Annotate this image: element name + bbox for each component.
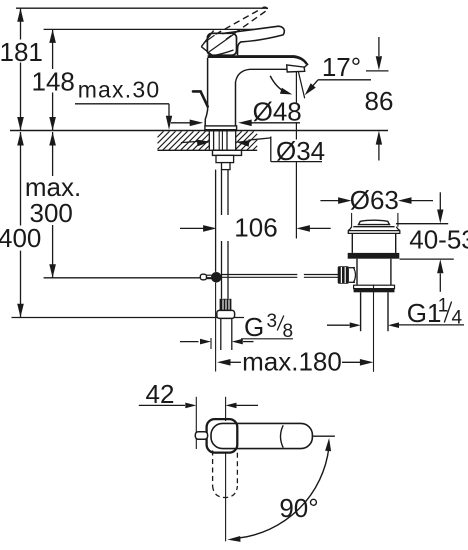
86 dimension bottom arrow bbox=[376, 131, 382, 161]
svg-text:3: 3 bbox=[267, 311, 278, 332]
svg-text:G1: G1 bbox=[407, 298, 442, 328]
handle pin bbox=[195, 432, 207, 440]
faucet body outline bbox=[205, 55, 308, 126]
O63 dimension left bbox=[320, 197, 351, 204]
deck hatching left bbox=[158, 131, 210, 150]
O48 dimension line right bbox=[238, 120, 300, 127]
O63 dimension right bbox=[398, 197, 433, 204]
max.180 dimension bbox=[217, 359, 373, 366]
40-53 top reference line bbox=[396, 223, 448, 225]
90deg reference line bbox=[313, 435, 335, 437]
dimension 148 vertical line bbox=[49, 29, 56, 130]
svg-text:106: 106 bbox=[234, 213, 277, 243]
17deg underline bbox=[318, 79, 371, 81]
svg-text:Ø48: Ø48 bbox=[253, 97, 302, 127]
dimension max.300 vertical line bbox=[49, 132, 56, 278]
reference line top (181 datum) bbox=[16, 7, 268, 9]
label 40-53 bbox=[409, 225, 468, 255]
86 top reference line bbox=[366, 70, 389, 72]
label max.180 bbox=[242, 347, 342, 377]
drain neck bbox=[352, 233, 395, 253]
drain flange bbox=[348, 227, 400, 234]
svg-text:181: 181 bbox=[0, 37, 43, 67]
lever handle solid bbox=[201, 26, 284, 56]
label O48 bbox=[253, 97, 302, 127]
svg-text:4: 4 bbox=[452, 308, 463, 329]
max.30 leader bbox=[75, 104, 172, 130]
svg-text:Ø63: Ø63 bbox=[350, 185, 399, 215]
handle top view blade bbox=[211, 423, 312, 448]
svg-text:max.30: max.30 bbox=[78, 77, 161, 103]
400 bottom reference line bbox=[12, 317, 245, 319]
dimension 181 vertical line bbox=[17, 8, 24, 130]
aerator bbox=[287, 65, 305, 72]
mounting nut bbox=[216, 155, 234, 169]
svg-text:Ø34: Ø34 bbox=[276, 136, 325, 166]
svg-text:max.180: max.180 bbox=[242, 347, 342, 377]
label 17deg bbox=[322, 52, 361, 82]
drain plug cap bbox=[359, 220, 390, 224]
deck hole right edge bbox=[235, 131, 237, 150]
label 181 bbox=[0, 37, 43, 67]
supply pipe bbox=[222, 170, 229, 299]
countertop deck top line bbox=[10, 130, 388, 132]
lever handle raised dashed bbox=[216, 7, 268, 39]
drain centerline bbox=[373, 285, 375, 372]
O63 extension lines bbox=[352, 213, 398, 227]
O34 right arrow bbox=[236, 138, 271, 147]
label 400 bbox=[0, 223, 41, 253]
106 dimension right bbox=[296, 225, 330, 232]
svg-text:17°: 17° bbox=[322, 52, 361, 82]
label max.30 bbox=[78, 77, 161, 103]
handle top view divider bbox=[281, 425, 284, 447]
water stream vertical reference bbox=[295, 72, 297, 239]
O48 dimension line left bbox=[171, 120, 203, 127]
svg-text:148: 148 bbox=[32, 66, 75, 96]
106 dimension left bbox=[180, 225, 217, 232]
max.300 bottom reference line bbox=[44, 277, 212, 279]
G3/8 connector block bbox=[220, 299, 232, 311]
svg-text:86: 86 bbox=[365, 86, 394, 116]
label 106 bbox=[234, 213, 277, 243]
svg-text:1: 1 bbox=[438, 296, 449, 317]
G3/8 tail pipe bbox=[221, 318, 232, 350]
G3/8 extension line bbox=[210, 338, 212, 349]
faucet shank bbox=[214, 131, 227, 150]
ball joint bbox=[211, 272, 222, 283]
deck hole left edge bbox=[208, 131, 210, 150]
lift rod extension below ball bbox=[215, 283, 217, 372]
90deg arc bbox=[227, 438, 331, 542]
drain side port bbox=[349, 268, 356, 283]
water stream angled line bbox=[299, 72, 305, 98]
svg-text:G: G bbox=[244, 312, 264, 342]
label 148 bbox=[32, 66, 75, 96]
mounting washer bbox=[213, 150, 242, 155]
label 42 bbox=[146, 379, 175, 409]
flow curved arrow bbox=[270, 76, 292, 95]
pop-up rod horizontal bbox=[222, 275, 338, 278]
O34 label bracket bbox=[271, 137, 322, 162]
faucet body hidden dashed bbox=[213, 451, 238, 498]
drain locknut bbox=[354, 285, 395, 292]
86 dimension top arrow bbox=[376, 37, 382, 70]
svg-text:90°: 90° bbox=[279, 493, 318, 523]
42 extension line left bbox=[195, 397, 197, 449]
reference line (148 datum) bbox=[44, 28, 278, 30]
handle top view base cap bbox=[207, 419, 238, 453]
dimension 400 vertical line bbox=[17, 132, 24, 317]
17deg leader arrow bbox=[305, 80, 318, 96]
O34 left arrow bbox=[181, 140, 211, 147]
svg-text:400: 400 bbox=[0, 223, 41, 253]
svg-text:40-53: 40-53 bbox=[409, 225, 468, 255]
deck bottom line bbox=[158, 149, 258, 151]
40-53 bottom arrow bbox=[437, 259, 443, 292]
label O34 bbox=[276, 136, 325, 166]
lift rod knob bbox=[193, 91, 208, 106]
label 86 bbox=[365, 86, 394, 116]
label 90deg bbox=[279, 493, 318, 523]
faucet base plate bbox=[205, 126, 237, 131]
handle pivot axis line bbox=[225, 397, 227, 542]
label G1-1/4 bbox=[407, 296, 463, 329]
40-53 bottom reference line bbox=[400, 258, 454, 260]
rod left cap bbox=[200, 274, 211, 280]
label G3/8 bbox=[241, 311, 293, 342]
deck hatching right bbox=[236, 131, 258, 150]
drain tail pipe bbox=[361, 292, 388, 331]
svg-text:42: 42 bbox=[146, 379, 175, 409]
G3/8 dimension arrows bbox=[180, 339, 254, 345]
G1-1/4 dimension arrows bbox=[327, 322, 464, 328]
lift rod below deck bbox=[215, 170, 217, 272]
drain seal ring bbox=[348, 253, 400, 259]
40-53 top arrow bbox=[437, 192, 443, 223]
label O63 bbox=[350, 185, 399, 215]
42 dimension bbox=[139, 403, 258, 409]
knurled nut bbox=[338, 266, 349, 284]
G3/8 connector flange bbox=[217, 310, 235, 318]
drain body bbox=[357, 259, 391, 286]
label max.300 bbox=[25, 172, 81, 228]
